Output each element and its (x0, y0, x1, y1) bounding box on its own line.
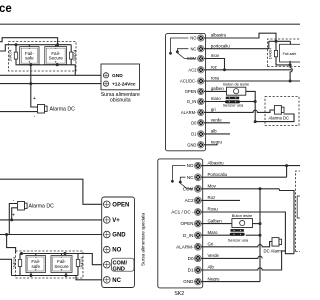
svg-text:Mov: Mov (208, 184, 217, 189)
svg-text:AC1 / DC -: AC1 / DC - (171, 210, 194, 215)
svg-text:NC: NC (190, 46, 196, 51)
svg-text:+: + (12, 213, 15, 219)
svg-text:OPEN: OPEN (180, 221, 193, 226)
svg-text:OPEN: OPEN (185, 89, 197, 94)
svg-text:D_IN: D_IN (183, 233, 193, 238)
svg-text:albastru: albastru (211, 33, 227, 38)
svg-text:D0: D0 (191, 120, 197, 125)
svg-text:Senzor usa: Senzor usa (223, 102, 244, 107)
svg-text:Sursa alimentare speciala: Sursa alimentare speciala (141, 213, 146, 266)
svg-text:AC2: AC2 (185, 198, 194, 203)
svg-text:1N4004: 1N4004 (269, 48, 273, 59)
svg-text:OPEN: OPEN (112, 202, 129, 208)
svg-text:D1: D1 (191, 132, 197, 137)
svg-text:NC: NC (112, 278, 121, 284)
svg-text:ce: ce (0, 3, 12, 15)
svg-text:AC2: AC2 (188, 67, 197, 72)
svg-text:rosu: rosu (211, 76, 220, 81)
svg-text:alb: alb (211, 129, 217, 134)
svg-text:Alarma DC: Alarma DC (50, 107, 76, 113)
svg-text:maro: maro (211, 96, 222, 101)
svg-text:Negru: Negru (208, 276, 221, 281)
svg-text:Galben: Galben (208, 218, 223, 223)
svg-text:NC: NC (187, 175, 194, 180)
svg-text:galben: galben (211, 86, 225, 91)
svg-text:+: + (33, 96, 36, 102)
svg-text:D0: D0 (188, 256, 194, 261)
svg-text:ALARM-: ALARM- (176, 244, 194, 249)
svg-text:verde: verde (211, 118, 223, 123)
svg-text:Buton iesire: Buton iesire (232, 213, 253, 218)
svg-text:GND: GND (183, 279, 194, 284)
svg-text:1N4004: 1N4004 (8, 50, 12, 62)
svg-text:Albastru: Albastru (208, 160, 225, 165)
svg-text:D1: D1 (188, 268, 194, 273)
svg-text:GND: GND (112, 233, 126, 239)
svg-text:1N4004: 1N4004 (73, 50, 77, 62)
svg-text:Portocaliu: Portocaliu (208, 172, 228, 177)
svg-text:Alarma DC: Alarma DC (269, 116, 289, 121)
svg-text:Fail-safe: Fail-safe (283, 52, 297, 56)
svg-text:mov: mov (211, 53, 220, 58)
svg-text:Senzor usa: Senzor usa (228, 237, 249, 242)
svg-text:GND: GND (187, 142, 196, 147)
svg-text:Buton de iesire: Buton de iesire (223, 82, 249, 87)
svg-text:1N4004: 1N4004 (80, 257, 84, 269)
svg-text:AC1/DC-: AC1/DC- (180, 79, 197, 84)
svg-text:Alb: Alb (208, 265, 215, 270)
svg-text:1N4004: 1N4004 (12, 257, 16, 269)
svg-text:gri: gri (211, 107, 216, 112)
svg-text:D_IN: D_IN (187, 99, 196, 104)
svg-text:portocaliu: portocaliu (211, 43, 231, 48)
svg-text:GND: GND (113, 266, 125, 272)
svg-text:NO: NO (112, 248, 121, 254)
svg-text:Verde: Verde (208, 253, 220, 258)
svg-text:roz: roz (211, 65, 217, 70)
svg-text:+: + (60, 267, 63, 272)
svg-text:Gri: Gri (208, 242, 214, 247)
svg-text:Roz: Roz (208, 195, 216, 200)
svg-text:negru: negru (211, 140, 223, 145)
svg-text:DC Alarm: DC Alarm (264, 249, 283, 254)
svg-text:Rosu: Rosu (208, 207, 219, 212)
svg-text:obisnuita: obisnuita (110, 98, 131, 104)
svg-text:+: + (34, 267, 37, 272)
svg-text:GND: GND (112, 73, 123, 79)
svg-text:NO: NO (190, 36, 196, 41)
svg-text:V+: V+ (112, 218, 120, 224)
svg-text:NO: NO (187, 163, 194, 168)
svg-text:Alarma DC: Alarma DC (29, 204, 55, 210)
svg-text:SK2: SK2 (174, 291, 184, 297)
svg-text:Maro: Maro (208, 230, 219, 235)
svg-text:+12-24Vcc: +12-24Vcc (112, 82, 136, 88)
svg-text:ALARM-: ALARM- (181, 110, 197, 115)
